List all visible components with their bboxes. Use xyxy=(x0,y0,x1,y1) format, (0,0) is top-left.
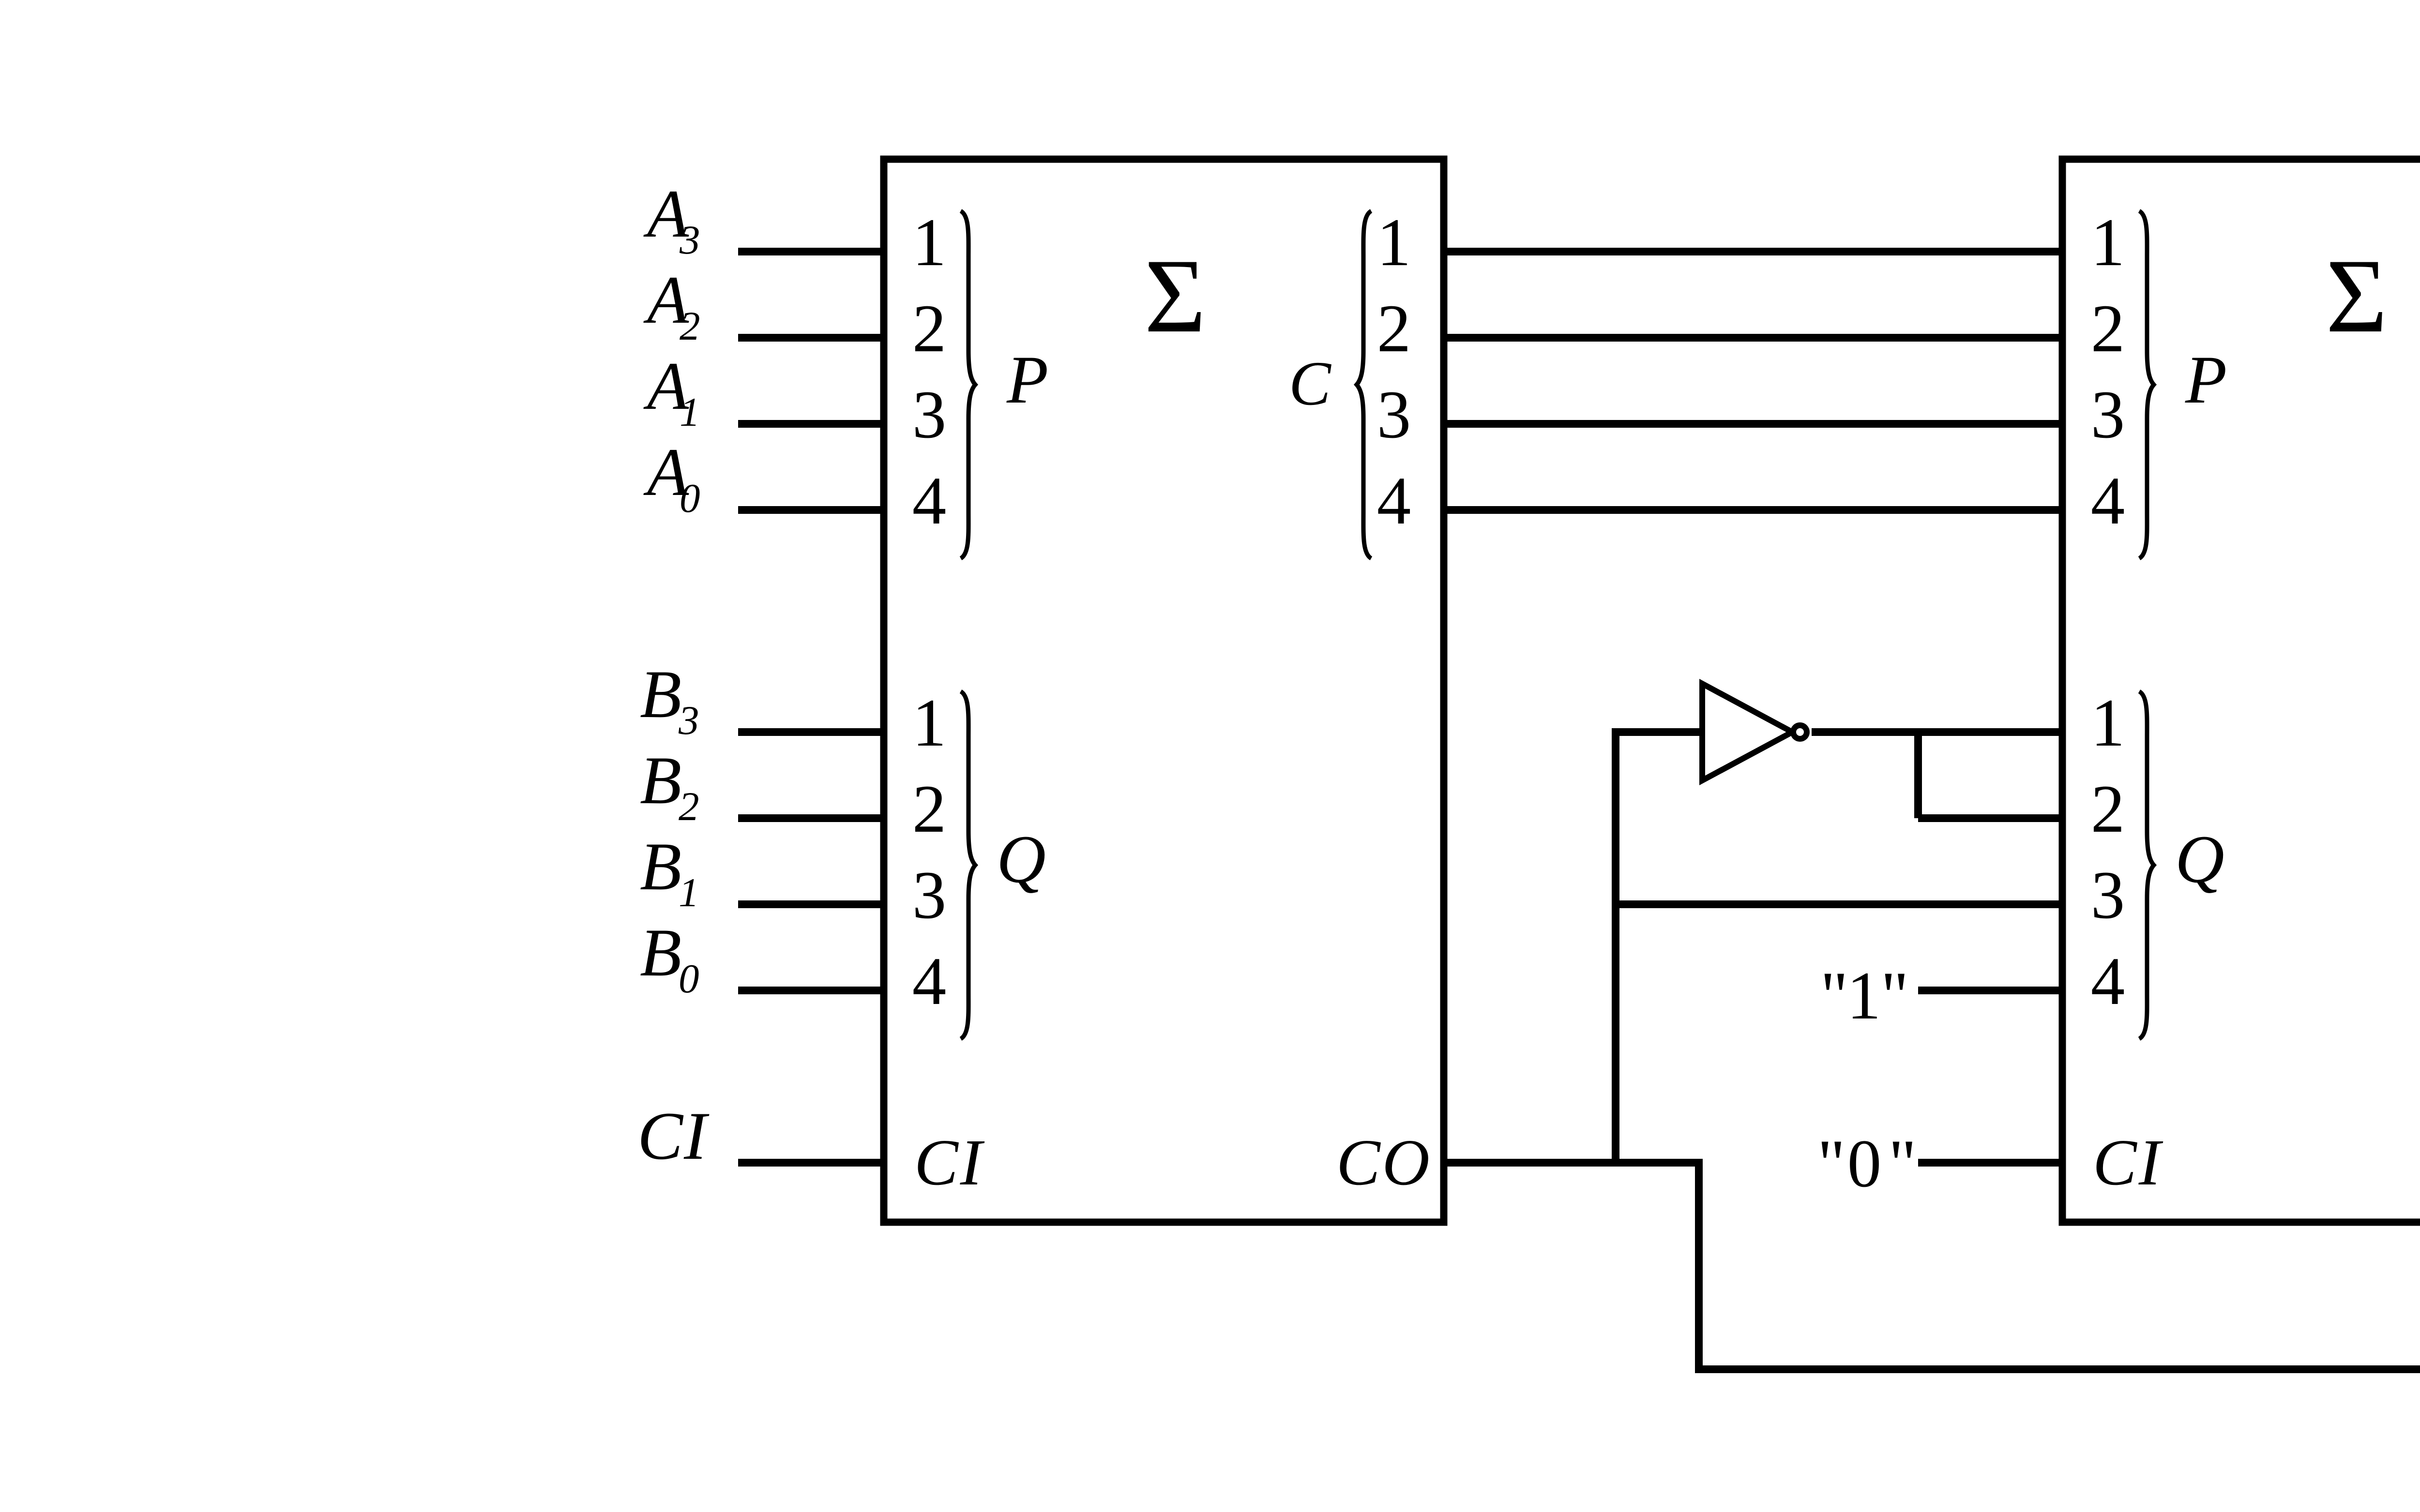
svg-text:P: P xyxy=(1006,342,1048,418)
svg-text:0: 0 xyxy=(679,956,699,1002)
svg-text:2: 2 xyxy=(2091,291,2125,366)
svg-text:1: 1 xyxy=(1847,958,1881,1033)
svg-text:2: 2 xyxy=(2091,771,2125,847)
svg-text:1: 1 xyxy=(912,685,947,761)
svg-text:2: 2 xyxy=(912,291,947,366)
svg-text:Σ: Σ xyxy=(1144,238,1206,355)
svg-text:3: 3 xyxy=(1377,377,1411,452)
svg-text:CO: CO xyxy=(1336,1126,1432,1199)
svg-text:Σ: Σ xyxy=(2326,238,2387,355)
svg-text:4: 4 xyxy=(2091,943,2125,1019)
svg-text:1: 1 xyxy=(2091,205,2125,280)
svg-text:": " xyxy=(1820,958,1848,1033)
svg-text:P: P xyxy=(2185,342,2227,418)
svg-text:0: 0 xyxy=(680,476,700,521)
svg-text:4: 4 xyxy=(1377,463,1411,539)
svg-text:4: 4 xyxy=(912,463,947,539)
svg-text:C: C xyxy=(1289,349,1331,419)
svg-text:3: 3 xyxy=(678,698,699,743)
svg-text:4: 4 xyxy=(912,943,947,1019)
svg-text:B: B xyxy=(640,915,681,990)
svg-text:Q: Q xyxy=(997,822,1046,897)
svg-text:3: 3 xyxy=(912,857,947,933)
svg-text:2: 2 xyxy=(680,303,700,349)
svg-text:": " xyxy=(1889,1126,1917,1201)
svg-text:1: 1 xyxy=(679,870,699,915)
svg-text:B: B xyxy=(640,743,681,818)
svg-text:1: 1 xyxy=(2091,685,2125,761)
svg-text:CI: CI xyxy=(2093,1126,2163,1199)
svg-text:": " xyxy=(1817,1126,1845,1201)
svg-text:3: 3 xyxy=(2091,857,2125,933)
svg-text:0: 0 xyxy=(1847,1126,1882,1201)
svg-text:2: 2 xyxy=(912,771,947,847)
svg-text:Q: Q xyxy=(2175,822,2224,897)
svg-text:CI: CI xyxy=(637,1098,710,1174)
svg-text:1: 1 xyxy=(912,205,947,280)
svg-text:1: 1 xyxy=(1377,205,1411,280)
svg-text:3: 3 xyxy=(679,217,700,263)
svg-text:": " xyxy=(1881,958,1909,1033)
svg-text:1: 1 xyxy=(680,389,700,435)
svg-text:3: 3 xyxy=(2091,377,2125,452)
svg-text:2: 2 xyxy=(679,784,699,829)
svg-text:3: 3 xyxy=(912,377,947,452)
svg-text:B: B xyxy=(640,657,681,732)
svg-text:4: 4 xyxy=(2091,463,2125,539)
svg-text:CI: CI xyxy=(914,1126,985,1199)
svg-text:B: B xyxy=(640,829,681,904)
svg-text:2: 2 xyxy=(1377,291,1411,366)
